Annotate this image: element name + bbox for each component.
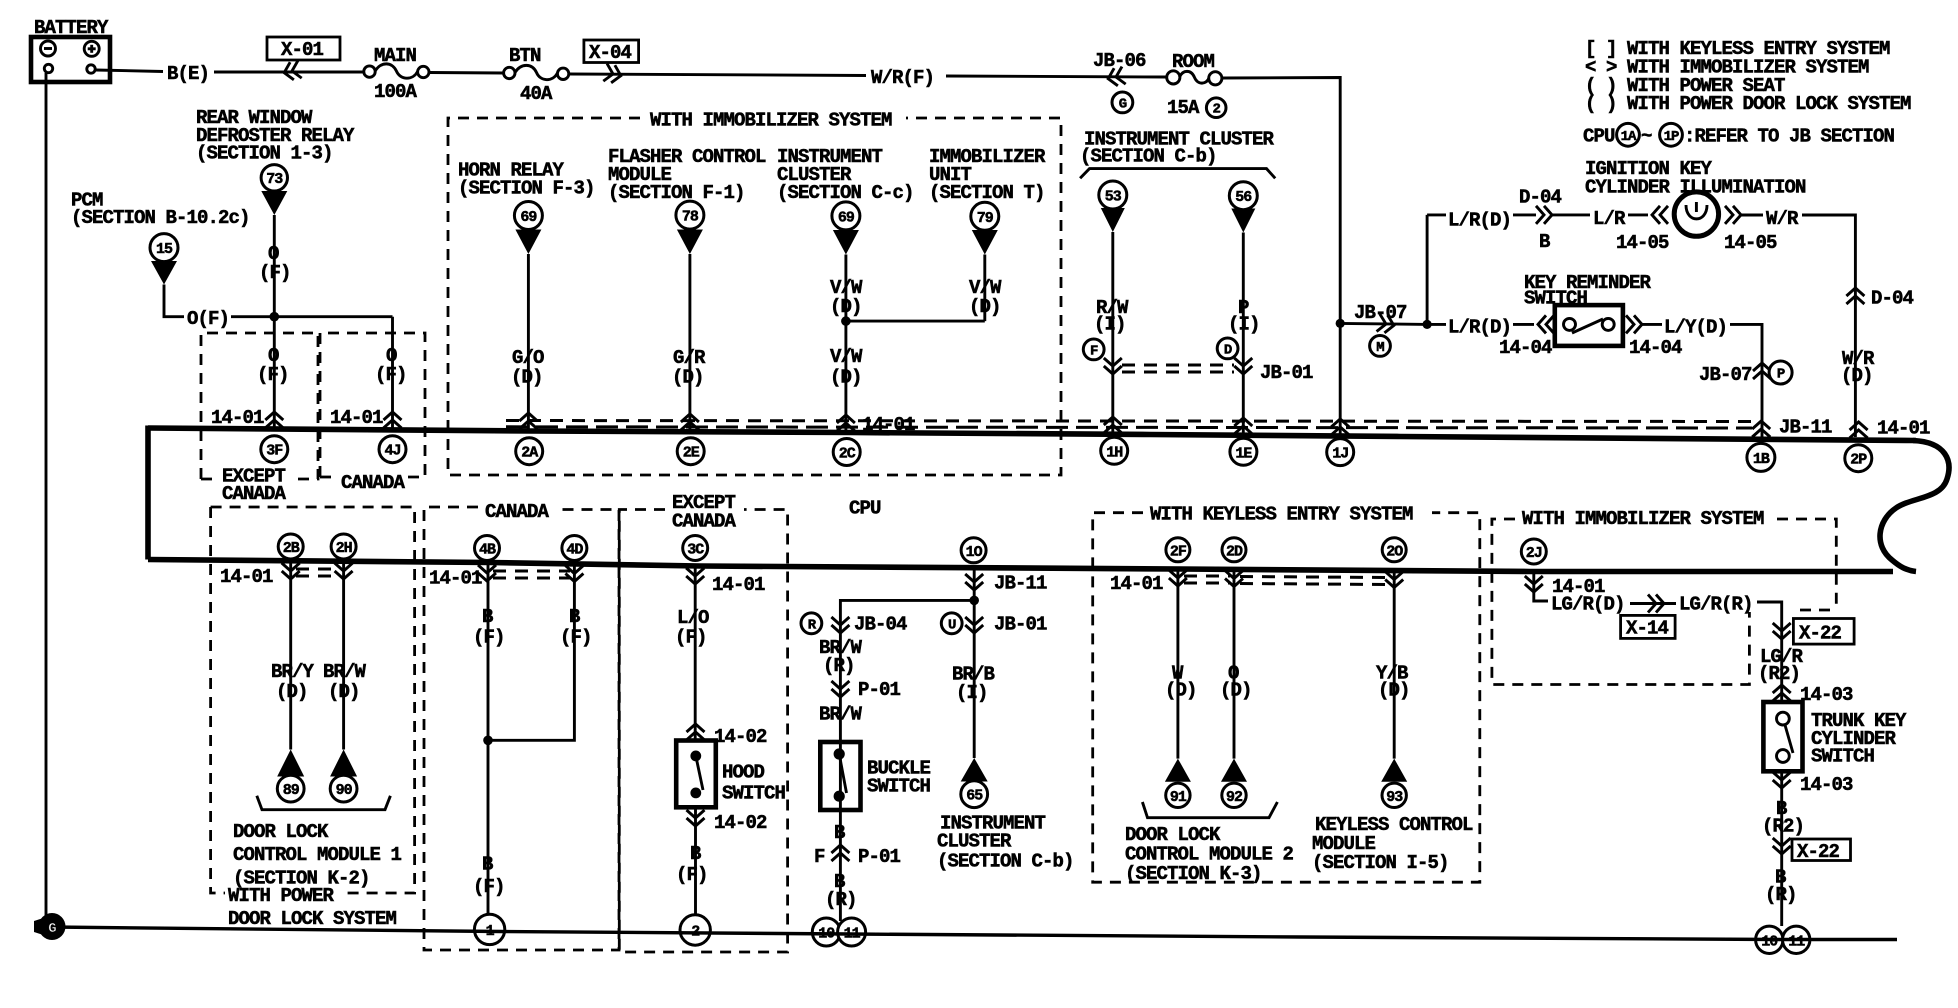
connector 53 [1099,181,1127,209]
svg-text:JB-07: JB-07 [1699,364,1752,386]
svg-text:B: B [1539,231,1550,253]
svg-text:L/R(D): L/R(D) [1448,316,1511,338]
wire battery to ground [45,73,48,927]
svg-text:D: D [1224,342,1232,358]
svg-text:93: 93 [1386,789,1403,806]
svg-text:P-01: P-01 [858,846,901,868]
bus lower [148,560,1893,572]
svg-text:P: P [1777,367,1785,383]
dashed box WITH IMMOBILIZER SYSTEM lower [1492,519,1750,685]
node G [1112,92,1133,113]
wire L/R(D) to lamp [1427,213,1446,216]
svg-text:(F): (F) [560,627,592,649]
connector D-04 on W/R riser [1846,288,1864,304]
switch trunk key cylinder [1763,702,1802,771]
svg-text:(I): (I) [1228,314,1260,336]
connector 69 [514,202,542,230]
svg-text:L/Y(D): L/Y(D) [1664,316,1727,338]
svg-text:G: G [1119,97,1127,113]
svg-text:D-04: D-04 [1871,288,1914,310]
svg-text:2D: 2D [1226,543,1243,560]
svg-text:DOOR LOCK SYSTEM: DOOR LOCK SYSTEM [228,908,397,930]
svg-text:69: 69 [838,210,855,227]
svg-text:14-01: 14-01 [220,566,273,588]
switch hood [676,741,716,808]
svg-text:M: M [1376,340,1384,356]
node 2F [1166,538,1190,562]
wire BR/W (D) [342,561,345,749]
svg-text:14-04: 14-04 [1629,337,1682,359]
svg-text:14-01: 14-01 [712,574,765,596]
svg-text:JB-11: JB-11 [994,573,1047,595]
svg-text:JB-07: JB-07 [1354,302,1407,324]
svg-text:U: U [948,617,956,633]
wire O (D) [1233,569,1236,759]
wire W (D) [1176,568,1179,758]
svg-text:2: 2 [1212,102,1220,118]
wire to 3F [273,317,276,429]
svg-text:(F): (F) [259,262,291,284]
wire to 4J [391,317,394,430]
svg-text:(SECTION T): (SECTION T) [929,182,1045,204]
svg-text:79: 79 [977,210,994,227]
svg-text:(F): (F) [257,364,289,386]
wire O(F) from 73 [273,215,276,317]
svg-text:(D): (D) [672,367,704,389]
svg-text:(D): (D) [276,681,308,703]
node 11 ground [838,918,866,946]
svg-text:1J: 1J [1332,446,1348,463]
svg-text:(D): (D) [830,296,862,318]
connector P-01 [831,681,849,697]
svg-text:14-02: 14-02 [714,812,767,834]
wire room riser to bus [1339,323,1342,436]
wire B (F) 4B [487,563,490,915]
bus left vertical [145,426,151,560]
node 1O [961,538,986,563]
svg-text:BTN: BTN [509,45,541,67]
wire JB-04 branch [840,600,974,921]
wire LG/R(D) [1534,572,1548,601]
connector 14-03 upper [1773,685,1791,701]
svg-text:56: 56 [1235,189,1252,206]
node junction B(F) [483,736,493,746]
svg-text:(D): (D) [830,367,862,389]
wire B(E) [96,70,163,72]
svg-text:14-03: 14-03 [1800,684,1853,706]
svg-text:2H: 2H [336,540,352,557]
brace door lock module 2 [1142,802,1277,818]
svg-text:JB-11: JB-11 [1779,417,1832,439]
svg-text:P-01: P-01 [858,679,901,701]
svg-text:SWITCH: SWITCH [722,783,786,805]
svg-text:3F: 3F [266,443,283,460]
node JB-07 [1336,319,1345,328]
node 4D [562,536,587,561]
svg-text:CLUSTER: CLUSTER [937,831,1012,853]
svg-text:90: 90 [336,782,353,799]
svg-text:2P: 2P [1850,452,1867,469]
svg-text:2F: 2F [1170,543,1187,560]
svg-text:1A: 1A [1621,129,1637,145]
svg-text:89: 89 [283,782,300,799]
wire JB-01 dashed pair [1122,364,1234,367]
svg-text:ROOM: ROOM [1172,51,1215,73]
svg-text:X-01: X-01 [281,39,324,61]
connector JB-07 P [1753,363,1771,379]
connector 14-02 lower [687,810,705,826]
svg-text:(R2): (R2) [1762,816,1804,838]
svg-text:14-02: 14-02 [714,726,767,748]
svg-text:BR/W: BR/W [323,661,367,683]
svg-text:78: 78 [682,209,699,226]
svg-text:14-05: 14-05 [1724,232,1777,254]
svg-text:JB-01: JB-01 [994,614,1047,636]
connector 56 [1229,182,1257,210]
svg-text:(SECTION C-b): (SECTION C-b) [1080,146,1217,168]
svg-text:(D): (D) [1220,680,1252,702]
svg-text:15A: 15A [1167,97,1200,119]
svg-text:BR/W: BR/W [819,704,863,726]
wire BR/Y (D) [289,561,292,750]
wire CPU down [973,567,976,759]
svg-text:(R2): (R2) [1758,663,1800,685]
connector X-22 upper [1773,623,1791,639]
ground G [34,917,48,937]
svg-text:11: 11 [1788,933,1805,950]
svg-text:14-01: 14-01 [211,407,264,429]
connector 89 [277,750,304,777]
svg-text:1O: 1O [966,544,983,561]
connector 78 [676,201,704,229]
node 10 ground right [1756,926,1783,953]
svg-text:2J: 2J [1526,545,1542,562]
connector 90 [330,750,357,777]
svg-text:CANADA: CANADA [222,483,287,505]
svg-text:10: 10 [1761,933,1778,950]
svg-text:W/R: W/R [1766,208,1799,230]
wire G/O (D) [527,254,530,431]
node U [941,613,962,634]
svg-text:B: B [482,854,493,876]
brace over 53 56 [1080,169,1275,179]
svg-text:LG/R(D): LG/R(D) [1551,594,1625,616]
node D [1217,338,1238,359]
svg-text:WITH KEYLESS ENTRY SYSTEM: WITH KEYLESS ENTRY SYSTEM [1150,504,1413,526]
node M [1370,336,1391,357]
dashed box CANADA lower [424,507,619,950]
svg-text:B: B [690,843,701,865]
connector 91 [1165,759,1191,782]
node 4J [379,436,406,463]
node 2O [1382,538,1406,562]
svg-text:B: B [834,822,845,844]
svg-text:65: 65 [966,788,983,805]
connector 14-02 upper [687,724,705,740]
svg-text:53: 53 [1105,189,1122,206]
lamp ignition key illumination [1674,192,1718,236]
svg-text:14-03: 14-03 [1800,774,1853,796]
wire L/R(D) riser [1423,320,1432,329]
connector X-14 [1621,615,1676,638]
svg-text:(R): (R) [1765,884,1797,906]
dashed box EXCEPT CANADA upper [201,333,318,479]
svg-text:W/R(F): W/R(F) [871,67,934,89]
wire O(F) horizontal [164,285,184,317]
svg-text:(SECTION K-2): (SECTION K-2) [233,868,370,890]
wire V/W (D) [844,255,847,433]
wire to MAIN fuse [214,71,364,74]
brace door lock module 1 [257,796,391,810]
svg-text:DOOR LOCK: DOOR LOCK [233,821,329,843]
svg-text:V/W: V/W [830,346,863,368]
node junction O(F) [270,312,280,322]
wire ROOM to corner [1222,78,1340,324]
wire V/W (D) 79 [983,255,986,322]
node 4B [475,536,500,561]
svg-text:2C: 2C [839,446,856,463]
connector 14-03 lower [1773,772,1791,788]
svg-text:CPU: CPU [849,498,881,520]
svg-text:73: 73 [266,171,283,188]
svg-text:(F): (F) [676,864,708,886]
svg-text:(SECTION C-b): (SECTION C-b) [937,851,1074,873]
svg-text:( ) WITH POWER DOOR LOCK SYSTE: ( ) WITH POWER DOOR LOCK SYSTEM [1585,93,1911,115]
svg-text:(SECTION K-3): (SECTION K-3) [1125,863,1262,885]
svg-text:(R): (R) [825,889,857,911]
svg-text:(SECTION F-1): (SECTION F-1) [608,182,745,204]
node 3F [261,436,288,463]
svg-text:MAIN: MAIN [374,45,417,67]
node 2E [677,438,704,465]
svg-text:G: G [48,921,56,937]
node R [801,613,822,634]
fuse MAIN 100A [364,66,375,77]
svg-text:15: 15 [156,241,173,258]
node 10 ground [812,918,840,946]
svg-text:WITH IMMOBILIZER SYSTEM: WITH IMMOBILIZER SYSTEM [650,110,892,132]
svg-text:CONTROL MODULE 1: CONTROL MODULE 1 [233,844,402,866]
svg-text:1H: 1H [1106,444,1122,461]
svg-text:2B: 2B [283,540,300,557]
dashed harness line above upper bus [506,421,1752,422]
svg-text:2E: 2E [683,445,700,462]
svg-text:14-05: 14-05 [1616,232,1669,254]
node 1E [1230,438,1257,465]
wire B (F) 4D [488,563,574,740]
svg-text:JB-04: JB-04 [854,614,907,636]
node 2B [278,534,303,559]
svg-text:F: F [814,846,825,868]
svg-text:L/R(D): L/R(D) [1448,210,1511,232]
wire key reminder row [1427,323,1446,326]
svg-text:(D): (D) [511,367,543,389]
svg-text:2O: 2O [1386,543,1403,560]
node 3C [683,536,708,561]
svg-text:D-04: D-04 [1519,187,1562,209]
svg-text:69: 69 [520,209,537,226]
svg-text:SWITCH: SWITCH [867,776,931,798]
connector 65 [961,758,988,782]
svg-text:(F): (F) [473,627,505,649]
svg-text:CANADA: CANADA [672,511,737,533]
svg-text:14-01: 14-01 [1110,573,1163,595]
svg-text:B: B [482,606,493,628]
node 2C [833,439,860,466]
svg-text:X-22: X-22 [1799,623,1842,645]
svg-text:(SECTION F-3): (SECTION F-3) [458,178,595,200]
connector X-04 [584,40,639,63]
svg-text:HOOD: HOOD [722,762,765,784]
connector 92 [1221,759,1247,782]
dashed box CANADA upper [320,333,425,477]
svg-text:SWITCH: SWITCH [1811,746,1875,768]
bus upper [148,428,1916,441]
svg-text:X-22: X-22 [1797,841,1840,863]
node 2H [331,534,356,559]
svg-text:1E: 1E [1235,445,1252,462]
svg-text:4B: 4B [479,542,496,559]
svg-text:CANADA: CANADA [341,472,406,494]
wire B (R2) [1780,771,1783,926]
wire P [1242,233,1245,436]
svg-text:1B: 1B [1753,451,1770,468]
svg-text:JB-01: JB-01 [1260,362,1313,384]
node 2A [516,438,543,465]
connector X-01 [267,37,340,60]
connector X-22 lower [1773,838,1791,854]
svg-text:B(E): B(E) [167,63,209,85]
svg-text:CPU: CPU [1583,126,1615,148]
wire MAIN to BTN [429,71,504,74]
svg-text::REFER TO JB SECTION: :REFER TO JB SECTION [1684,126,1895,148]
svg-text:O(F): O(F) [187,308,229,330]
node junction V/W [841,316,851,326]
svg-text:(F): (F) [675,627,707,649]
node 1J [1327,439,1354,466]
wire R/W [1111,232,1114,435]
svg-text:~: ~ [1641,126,1652,148]
wire W/R [1741,214,1763,217]
svg-text:(D): (D) [1841,365,1873,387]
node 1B [1747,443,1775,471]
svg-text:(D): (D) [1165,680,1197,702]
dashed box WITH KEYLESS ENTRY SYSTEM [1093,513,1480,883]
svg-text:14-01: 14-01 [1877,418,1930,440]
svg-text:(F): (F) [375,364,407,386]
svg-text:(SECTION 1-3): (SECTION 1-3) [196,143,333,165]
svg-text:(SECTION B-10.2c): (SECTION B-10.2c) [71,207,250,229]
svg-text:92: 92 [1226,789,1243,806]
wire L/O (F) [694,565,697,741]
node 1 ground [474,914,504,944]
svg-text:CYLINDER ILLUMINATION: CYLINDER ILLUMINATION [1585,177,1806,199]
svg-text:(SECTION I-5): (SECTION I-5) [1312,852,1449,874]
bus S-curve right [1880,441,1949,572]
svg-text:(D): (D) [1378,680,1410,702]
wire L/Y(D) to bus [1730,324,1762,437]
node F [1083,339,1104,360]
dashed box EXCEPT CANADA lower [619,510,787,953]
svg-text:X-04: X-04 [589,42,632,64]
node 1H [1101,437,1128,464]
connector 79 [971,202,999,230]
connector 69b [832,202,860,230]
connector 2P chevron [1850,422,1868,438]
node 2J [1521,539,1546,564]
svg-text:F: F [1090,343,1098,359]
svg-text:B: B [569,606,580,628]
svg-text:(I): (I) [956,682,988,704]
ground bus [50,927,1897,940]
dashed box WITH IMMOBILIZER SYSTEM [448,118,1061,475]
svg-text:(D): (D) [328,681,360,703]
node 2 ground [680,915,710,945]
connector 1B chevron [1752,421,1770,437]
svg-text:CANADA: CANADA [485,501,550,523]
node 11 ground right [1783,926,1810,953]
svg-text:1P: 1P [1664,129,1679,145]
svg-text:BR/Y: BR/Y [271,661,315,683]
connector 93 [1381,759,1407,782]
svg-text:4J: 4J [384,443,400,460]
wire B (F) hood [694,807,697,915]
fuse ROOM 15A [1167,71,1180,84]
connector 73 [261,165,287,191]
battery [31,37,110,82]
wire W/R(F) [569,74,866,76]
svg-text:(R): (R) [823,655,855,677]
wire Y/B (D) [1393,570,1396,759]
switch key reminder [1555,305,1623,346]
svg-text:L/R: L/R [1593,208,1626,230]
svg-text:(D): (D) [969,296,1001,318]
svg-text:4D: 4D [566,542,583,559]
svg-text:14-04: 14-04 [1499,337,1552,359]
svg-text:14-01: 14-01 [429,568,482,590]
switch buckle [820,742,860,810]
svg-text:LG/R(R): LG/R(R) [1679,594,1753,616]
wire G/R (D) [688,254,691,432]
svg-text:40A: 40A [520,83,553,105]
svg-text:14-01: 14-01 [330,407,383,429]
node junction JB-04 [969,596,979,606]
svg-text:91: 91 [1170,789,1187,806]
dashed box WITH POWER DOOR LOCK SYSTEM [211,507,415,893]
svg-text:(I): (I) [1094,314,1126,336]
svg-text:WITH IMMOBILIZER SYSTEM: WITH IMMOBILIZER SYSTEM [1522,508,1764,530]
node 2P [1845,445,1872,472]
svg-text:100A: 100A [374,81,418,103]
connector 15 [150,234,178,262]
svg-text:X-14: X-14 [1626,618,1669,640]
fuse BTN 40A [504,67,515,78]
svg-text:3C: 3C [687,542,704,559]
svg-text:2A: 2A [521,445,538,462]
svg-text:(F): (F) [473,876,505,898]
node 2D [1222,538,1246,562]
